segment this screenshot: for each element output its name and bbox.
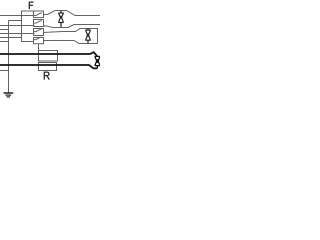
wire F2 output to capsule bottom — [44, 25, 101, 28]
ground bus vertical — [8, 21, 10, 93]
label F — [29, 2, 34, 9]
wire feed W3 to fuse F3 — [0, 33, 35, 35]
fuse box F2 — [34, 20, 44, 27]
wire feed W1 to fuse F1 — [0, 15, 35, 17]
fuse box F4 — [34, 37, 44, 44]
wire F3 output to capsule2 top — [44, 29, 98, 44]
relay box R1 — [39, 51, 58, 62]
wire F4 output to capsule2 bottom — [44, 41, 98, 44]
wire ground tie W5 — [0, 41, 9, 43]
wire W7 into rail — [0, 37, 22, 39]
ground — [4, 93, 14, 97]
suppressor D2 — [85, 29, 90, 44]
fuse box F3 — [34, 29, 44, 36]
suppressor D1 — [58, 11, 63, 28]
wire bus branch — [9, 20, 22, 22]
wire ground tie W6 — [0, 70, 9, 72]
suppressor D3 — [95, 56, 101, 68]
wire thick feed through relay R1 — [0, 52, 97, 56]
wire coil link F4 to relay R — [38, 44, 40, 51]
fuse box F1 — [34, 11, 44, 18]
wire F1 output to capsule top — [44, 11, 101, 16]
label R — [44, 72, 49, 80]
wire ground tie W4 — [0, 29, 9, 31]
wire thick feed through relay R2 — [0, 65, 97, 68]
wire feed W2 to fuse F2 — [0, 25, 35, 27]
relay box R2 — [39, 63, 57, 71]
rail vertical with corners — [22, 11, 34, 42]
